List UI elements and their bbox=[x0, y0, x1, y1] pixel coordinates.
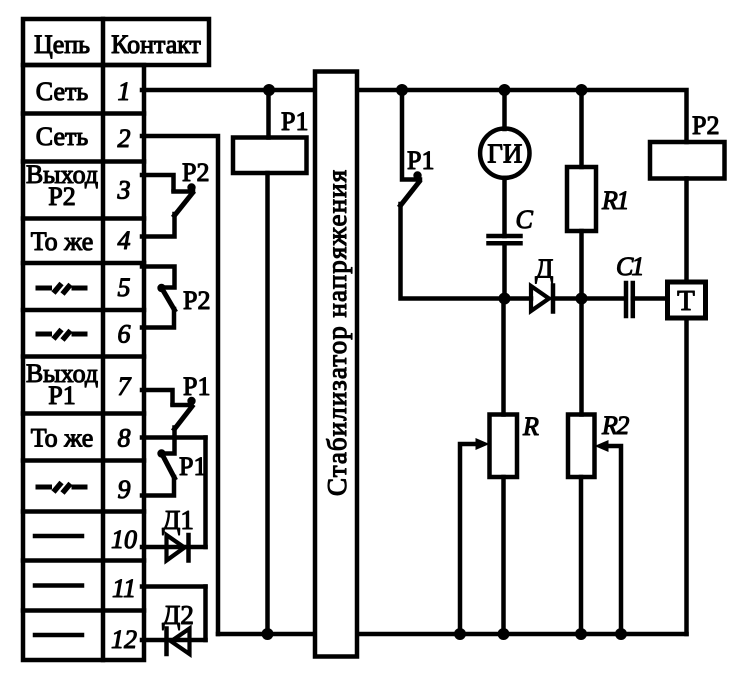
wire contact 2 down to bottom bus bbox=[142, 136, 218, 634]
variable resistor R lead top bbox=[501, 299, 506, 415]
svg-text:Р2: Р2 bbox=[182, 158, 209, 187]
node junction top bus / R1 branch bbox=[576, 84, 588, 96]
relay coil P1 bbox=[233, 138, 307, 174]
node junction bottom bus / R2 wiper bbox=[615, 628, 627, 640]
svg-text:3: 3 bbox=[117, 176, 131, 205]
svg-text:Сеть: Сеть bbox=[36, 77, 89, 106]
node junction middle bus / C bbox=[499, 293, 511, 305]
node junction bottom bus / R wiper bbox=[454, 628, 466, 640]
switch contact P2.2 fixed lead (contact 5) bbox=[142, 267, 175, 293]
wire capacitor C1 to block Т bbox=[633, 296, 668, 301]
wire capacitor C to middle bus bbox=[502, 243, 507, 298]
wire R to bottom bus bbox=[501, 477, 506, 634]
svg-text:9: 9 bbox=[118, 475, 131, 504]
row 7 label Выход Р1 bbox=[26, 359, 98, 410]
switch contact P1.2 blade bbox=[163, 455, 175, 478]
relay coil P1 lead top bbox=[266, 90, 271, 138]
wire contact 12 line bbox=[142, 638, 206, 643]
svg-text:То же: То же bbox=[31, 424, 94, 453]
svg-text:Р2: Р2 bbox=[48, 182, 75, 211]
svg-text:С1: С1 bbox=[616, 252, 642, 281]
svg-text:Д1: Д1 bbox=[162, 505, 194, 535]
row 6 ditto mark bbox=[36, 330, 88, 341]
switch contact P1 (right side) fixed lead bbox=[402, 90, 422, 180]
row 11 dash mark bbox=[35, 583, 82, 588]
svg-text:4: 4 bbox=[118, 226, 131, 255]
wire relay coil P1 to bottom bus bbox=[265, 173, 270, 634]
node junction middle bus / R1 / R2 bbox=[576, 293, 588, 305]
node junction top bus / P1 contact branch bbox=[396, 84, 408, 96]
block Т bbox=[668, 282, 706, 318]
diode Д1 bbox=[167, 535, 189, 561]
diode Д bbox=[531, 286, 553, 312]
node junction top bus / P1 coil bbox=[263, 84, 275, 96]
wiper of R2 (arrow) bbox=[595, 440, 622, 634]
svg-text:R1: R1 bbox=[601, 186, 628, 215]
svg-text:Р1: Р1 bbox=[281, 107, 308, 136]
svg-text:Р2: Р2 bbox=[183, 286, 210, 315]
diode Д2 bbox=[167, 629, 190, 655]
row 5 ditto mark bbox=[36, 284, 88, 295]
svg-text:Р1: Р1 bbox=[48, 381, 75, 410]
wire P2.1 to contact 4 bbox=[142, 214, 175, 237]
node junction bottom bus / R2 bbox=[575, 628, 587, 640]
node junction bottom bus / R bbox=[498, 628, 510, 640]
wire R1 to middle bus and R2 bbox=[579, 231, 584, 415]
svg-text:6: 6 bbox=[118, 320, 131, 349]
svg-text:10: 10 bbox=[111, 525, 137, 554]
svg-text:R: R bbox=[522, 412, 539, 441]
resistor R1 bbox=[567, 167, 596, 231]
wire middle bus C to diode Д bbox=[505, 296, 532, 301]
switch contact P2.1 fixed lead (contact 3) bbox=[142, 175, 196, 192]
switch contact P1 (right side) blade bbox=[401, 182, 420, 206]
terminal table header frame bbox=[23, 19, 209, 65]
svg-text:Р1: Р1 bbox=[183, 372, 210, 401]
wire contact 8 line down to Д1 bbox=[203, 438, 208, 548]
wire P1.1 to contact 8 line bbox=[172, 428, 177, 438]
capacitor C1 bbox=[626, 283, 633, 316]
row 10 dash mark bbox=[35, 534, 82, 539]
variable resistor R bbox=[490, 415, 518, 478]
svg-text:Сеть: Сеть bbox=[36, 122, 89, 151]
terminal table body frame bbox=[23, 65, 144, 660]
variable resistor R2 bbox=[568, 415, 595, 478]
svg-text:С: С bbox=[516, 205, 534, 234]
switch contact P1.1 fixed lead (contact 7) bbox=[142, 390, 196, 405]
resistor R1 lead top bbox=[579, 90, 584, 167]
svg-text:Р2: Р2 bbox=[692, 111, 719, 140]
pulse generator ГИ bbox=[480, 129, 529, 178]
row 12 dash mark bbox=[35, 633, 82, 638]
svg-text:12: 12 bbox=[111, 625, 137, 654]
node junction top bus / ГИ branch bbox=[499, 84, 511, 96]
switch contact P1.2 fixed lead (from contact 8 line) bbox=[157, 438, 174, 458]
svg-text:5: 5 bbox=[118, 273, 131, 302]
wire contact 11 line bbox=[142, 584, 206, 589]
svg-text:Контакт: Контакт bbox=[111, 30, 201, 59]
capacitor C bbox=[489, 236, 521, 243]
wire relay coil P2 to block Т bbox=[684, 179, 689, 283]
svg-text:8: 8 bbox=[118, 424, 131, 453]
wire ГИ to capacitor C bbox=[502, 178, 507, 236]
svg-text:7: 7 bbox=[118, 372, 132, 401]
wire bottom bus right segment bbox=[357, 632, 687, 637]
wire R2 to bottom bus bbox=[579, 477, 584, 634]
wire block Т to bottom bus bbox=[684, 318, 689, 634]
wiper of R (arrow) bbox=[460, 438, 490, 634]
row 9 ditto mark bbox=[36, 483, 88, 494]
svg-text:Стабилизатор напряжения: Стабилизатор напряжения bbox=[322, 170, 352, 496]
svg-text:2: 2 bbox=[118, 124, 131, 153]
svg-text:11: 11 bbox=[112, 574, 136, 603]
wire top bus right segment (stabilizer to P2 branch) bbox=[357, 90, 687, 142]
svg-text:Цепь: Цепь bbox=[34, 30, 90, 59]
svg-text:Р1: Р1 bbox=[407, 146, 434, 175]
wire top bus left segment (contact 1 to stabilizer) bbox=[142, 88, 315, 93]
svg-text:1: 1 bbox=[118, 77, 131, 106]
pulse generator ГИ lead top bbox=[502, 90, 507, 129]
svg-text:То же: То же bbox=[31, 227, 94, 256]
svg-text:ГИ: ГИ bbox=[487, 139, 522, 169]
switch contact P2.1 blade bbox=[175, 193, 193, 216]
switch contact P2.2 blade bbox=[163, 290, 175, 311]
wire middle bus to capacitor C1 bbox=[582, 296, 625, 301]
svg-text:Т: Т bbox=[677, 285, 695, 317]
svg-text:Р1: Р1 bbox=[179, 452, 206, 481]
relay coil P2 bbox=[650, 142, 725, 179]
wire contact 11 line down to Д2 bbox=[203, 587, 208, 641]
wire diode Д to R1 node bbox=[553, 296, 582, 301]
wire P2.2 to contact 6 bbox=[142, 309, 174, 328]
row 3 label Выход Р2 bbox=[26, 160, 98, 211]
voltage stabilizer block U1 bbox=[315, 72, 357, 657]
node junction bottom bus / P1 coil bbox=[262, 628, 274, 640]
wire contact 10 line bbox=[142, 545, 206, 550]
svg-text:R2: R2 bbox=[601, 411, 629, 440]
wire P1 switch to middle bus bbox=[401, 204, 505, 299]
wire contact 8 line bbox=[142, 435, 206, 440]
switch contact P1.1 blade bbox=[175, 407, 193, 430]
svg-text:Д2: Д2 bbox=[162, 600, 194, 630]
wire P1.2 to contact 9 bbox=[142, 477, 174, 496]
svg-text:Д: Д bbox=[535, 254, 553, 284]
wire bottom bus left segment bbox=[218, 632, 315, 637]
